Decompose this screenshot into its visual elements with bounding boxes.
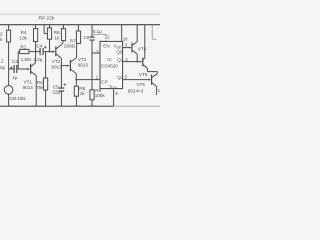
microphone B CM-18 xyxy=(4,86,13,95)
wire R7 to VT3 collector xyxy=(76,43,78,57)
svg-text:2: 2 xyxy=(0,31,3,36)
svg-text:R5: R5 xyxy=(37,80,43,85)
wire microphone to ground xyxy=(8,94,10,106)
svg-text:C4: C4 xyxy=(36,44,42,49)
top supply rail xyxy=(0,24,160,26)
capacitor C6 0.1u xyxy=(90,36,95,37)
svg-text:9013: 9013 xyxy=(78,62,89,67)
svg-text:VT1: VT1 xyxy=(24,80,33,85)
wire rail to RP wiper xyxy=(43,25,45,34)
wire R9 to ground xyxy=(91,100,93,106)
resistor R2 (label cut at edge) xyxy=(7,30,11,42)
wire pin 4 to VT5 base xyxy=(123,61,141,63)
svg-text:R6: R6 xyxy=(54,30,60,35)
wire RP to VT2 base node xyxy=(49,39,51,51)
svg-text:VT4: VT4 xyxy=(138,46,147,51)
transistor VT3 9013 xyxy=(70,60,71,71)
svg-text:0.1μ: 0.1μ xyxy=(93,29,102,34)
svg-text:C3: C3 xyxy=(12,59,18,64)
wire R4 to VT1 collector / node A xyxy=(35,42,37,63)
svg-text:VT6: VT6 xyxy=(136,82,145,87)
wire R1 left leg down to base node xyxy=(18,51,19,53)
svg-text:1k: 1k xyxy=(80,91,86,96)
wire rail to R2 xyxy=(8,25,10,31)
svg-text:VT5: VT5 xyxy=(139,72,148,77)
wire pin 8 VSS to ground xyxy=(113,89,115,107)
resistor R9 100k xyxy=(90,90,94,100)
svg-text:16: 16 xyxy=(123,36,128,41)
wire VT4 emitter to pin4 node xyxy=(136,54,138,61)
svg-text:C6: C6 xyxy=(84,35,90,40)
svg-text:IC: IC xyxy=(107,57,112,62)
wire VT4 collector to rail xyxy=(136,25,138,42)
capacitor C3 1u xyxy=(14,65,15,73)
wire VT3 emitter to R8 and CP xyxy=(75,74,77,87)
wire rail to pin 16 VDD xyxy=(121,25,123,42)
resistor R5 75k xyxy=(44,78,48,90)
svg-text:2: 2 xyxy=(1,59,4,64)
transistor VT4 9014 xyxy=(131,43,132,53)
svg-text:R4: R4 xyxy=(21,30,27,35)
junction VT2 base xyxy=(49,51,51,53)
resistor R7 200ohm xyxy=(76,31,80,43)
potentiometer RP 22k xyxy=(47,28,51,39)
wire R5 to ground xyxy=(45,90,47,106)
wire rail to R7 xyxy=(77,25,79,31)
wire pin 2 EN xyxy=(92,33,106,35)
wire R1 to node A xyxy=(29,51,36,53)
wire C3 to VT1 base xyxy=(17,68,27,70)
svg-text:EN: EN xyxy=(103,43,109,48)
svg-text:RP 22k: RP 22k xyxy=(39,15,55,21)
svg-text:9014: 9014 xyxy=(23,85,34,90)
capacitor C5 22u xyxy=(59,87,65,88)
wire VT1 emitter to ground xyxy=(35,76,37,107)
wire to IC pin 7 xyxy=(92,52,100,54)
svg-text:75k: 75k xyxy=(36,85,44,90)
resistor R4 10k xyxy=(34,29,38,42)
svg-text:CD4520: CD4520 xyxy=(101,63,118,68)
wire pin 5 to VT6 base xyxy=(123,79,149,81)
svg-text:1.5M: 1.5M xyxy=(21,57,31,62)
resistor R6 1k xyxy=(61,29,65,41)
svg-text:Q6: Q6 xyxy=(116,49,123,54)
transistor VT1 9014 xyxy=(30,64,31,74)
wire R8 to ground xyxy=(75,96,77,106)
wire R2 to microphone xyxy=(8,42,10,86)
faint page rule line xyxy=(0,13,160,15)
svg-text:200Ω: 200Ω xyxy=(64,44,76,49)
capacitor C4 2.2u xyxy=(40,48,41,55)
svg-text:CM-18Ω: CM-18Ω xyxy=(9,96,26,101)
svg-text:Q2: Q2 xyxy=(117,58,124,63)
svg-text:CP: CP xyxy=(101,79,107,84)
wire C5 to ground xyxy=(60,92,62,107)
svg-text:0μ: 0μ xyxy=(0,65,6,70)
transistor VT2 9013 xyxy=(55,46,56,56)
svg-text:22μ: 22μ xyxy=(52,90,60,95)
wire C6 to R9 xyxy=(91,41,93,90)
svg-text:SS: SS xyxy=(113,86,117,90)
svg-text:2.2μ: 2.2μ xyxy=(33,57,42,62)
svg-text:Q3: Q3 xyxy=(117,75,124,80)
transistor VT5 9014 xyxy=(142,58,143,67)
svg-text:VT3: VT3 xyxy=(78,57,87,62)
svg-text:9014×3: 9014×3 xyxy=(128,89,144,94)
resistor R1 1.5M (horizontal) xyxy=(20,49,29,53)
wire rail to R4 xyxy=(35,25,37,29)
wire VT6 emitter down xyxy=(156,87,158,95)
wire node mic to C3 xyxy=(9,68,14,70)
transistor VT6 9014 xyxy=(151,74,152,84)
wire VT2 base node down to R5 xyxy=(45,52,47,78)
wire node A to C4 xyxy=(36,51,40,53)
svg-text:1k: 1k xyxy=(54,36,60,41)
wire R6 to VT2 collector xyxy=(62,41,64,45)
svg-text:1μ: 1μ xyxy=(12,75,18,80)
svg-text:R1: R1 xyxy=(20,44,26,49)
junction VT3 emitter xyxy=(75,79,77,81)
junction node A xyxy=(35,51,37,53)
wire rail to R6 xyxy=(63,25,65,29)
svg-text:1: 1 xyxy=(158,88,160,93)
svg-text:10k: 10k xyxy=(19,36,27,41)
svg-text:9013: 9013 xyxy=(51,65,62,70)
svg-text:VT2: VT2 xyxy=(52,59,61,64)
svg-text:100k: 100k xyxy=(95,93,106,98)
junction pin4 node xyxy=(136,61,138,63)
faint stub wire at right xyxy=(151,25,153,39)
ground rail (bottom) xyxy=(0,105,114,107)
wire rail to C6 xyxy=(91,25,93,37)
wire to IC pin 1 CP xyxy=(76,79,100,81)
wire C4 to VT2 base node xyxy=(44,51,53,53)
IC U1 CD4520 box xyxy=(100,41,123,88)
wire VT5 collector to rail xyxy=(144,25,146,59)
wire VT5 emitter to VT6 collector xyxy=(147,68,157,73)
wire VT2 emitter to VT3 base / C5 xyxy=(60,58,62,87)
wire pin 3 to VT4 base xyxy=(123,47,130,49)
resistor R8 1k xyxy=(74,86,78,96)
